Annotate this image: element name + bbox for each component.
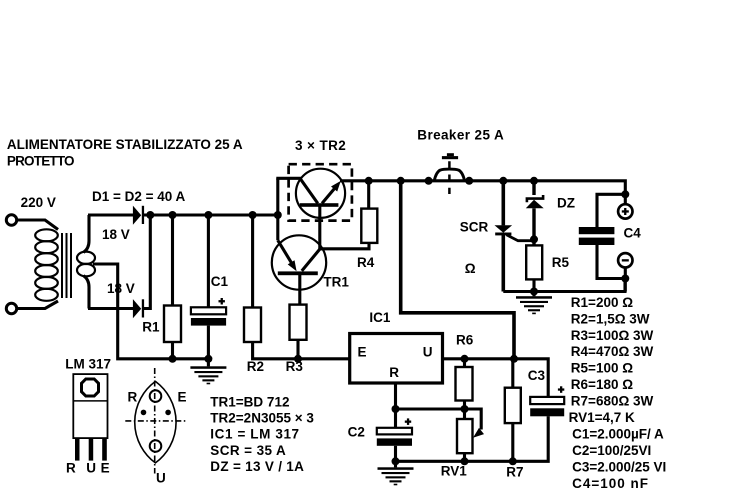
svg-text:C1=2.000µF/ A: C1=2.000µF/ A — [572, 427, 664, 442]
svg-text:220 V: 220 V — [21, 195, 56, 210]
svg-text:C4=100 nF: C4=100 nF — [572, 476, 649, 491]
svg-text:RV1=4,7 K: RV1=4,7 K — [569, 410, 635, 425]
svg-text:IC1 = LM 317: IC1 = LM 317 — [210, 427, 299, 442]
svg-text:Ω: Ω — [465, 261, 476, 276]
svg-text:RV1: RV1 — [441, 463, 468, 478]
svg-text:Breaker 25 A: Breaker 25 A — [417, 128, 504, 143]
svg-text:C2=100/25VI: C2=100/25VI — [572, 443, 651, 458]
svg-text:DZ = 13 V / 1A: DZ = 13 V / 1A — [210, 459, 304, 474]
svg-text:C1: C1 — [211, 274, 229, 289]
svg-text:TR1: TR1 — [323, 275, 349, 290]
svg-text:C2: C2 — [348, 424, 365, 439]
svg-text:R2=1,5Ω 3W: R2=1,5Ω 3W — [571, 311, 650, 326]
svg-text:TR2=2N3055 × 3: TR2=2N3055 × 3 — [210, 411, 314, 426]
svg-text:U: U — [86, 460, 96, 475]
svg-text:R1: R1 — [142, 320, 160, 335]
svg-text:R2: R2 — [247, 359, 264, 374]
svg-text:R3: R3 — [286, 359, 304, 374]
svg-text:R7: R7 — [506, 465, 523, 480]
svg-text:R5: R5 — [552, 255, 570, 270]
svg-text:TR1=BD 712: TR1=BD 712 — [210, 394, 289, 409]
svg-text:E: E — [358, 345, 367, 360]
svg-text:R3=100Ω 3W: R3=100Ω 3W — [571, 328, 654, 343]
svg-text:C3: C3 — [528, 368, 546, 383]
svg-text:U: U — [423, 345, 433, 360]
svg-text:LM 317: LM 317 — [65, 356, 111, 371]
svg-text:R: R — [128, 389, 138, 404]
svg-text:R: R — [66, 460, 76, 475]
svg-text:SCR: SCR — [460, 220, 489, 235]
svg-text:R1=200 Ω: R1=200 Ω — [571, 295, 633, 310]
svg-text:R4=470Ω 3W: R4=470Ω 3W — [571, 344, 654, 359]
svg-text:R6=180 Ω: R6=180 Ω — [571, 377, 633, 392]
svg-text:D1 = D2 = 40 A: D1 = D2 = 40 A — [92, 189, 186, 204]
svg-text:3 × TR2: 3 × TR2 — [295, 138, 346, 153]
svg-text:R7=680Ω 3W: R7=680Ω 3W — [571, 394, 654, 409]
svg-text:PROTETTO: PROTETTO — [7, 154, 74, 169]
svg-text:E: E — [101, 460, 110, 475]
svg-text:U: U — [156, 471, 166, 486]
svg-text:IC1: IC1 — [369, 310, 391, 325]
svg-text:E: E — [178, 389, 187, 404]
svg-text:C4: C4 — [624, 225, 642, 240]
svg-text:18 V: 18 V — [102, 227, 130, 242]
svg-text:R: R — [389, 365, 399, 380]
svg-text:ALIMENTATORE STABILIZZATO 25 A: ALIMENTATORE STABILIZZATO 25 A — [7, 137, 243, 152]
svg-text:18 V: 18 V — [107, 281, 135, 296]
svg-text:C3=2.000/25 VI: C3=2.000/25 VI — [572, 459, 666, 474]
svg-text:SCR = 35 A: SCR = 35 A — [210, 443, 286, 458]
svg-text:R6: R6 — [456, 333, 474, 348]
svg-text:DZ: DZ — [557, 196, 575, 211]
svg-text:R5=100 Ω: R5=100 Ω — [571, 361, 633, 376]
svg-text:R4: R4 — [357, 255, 375, 270]
